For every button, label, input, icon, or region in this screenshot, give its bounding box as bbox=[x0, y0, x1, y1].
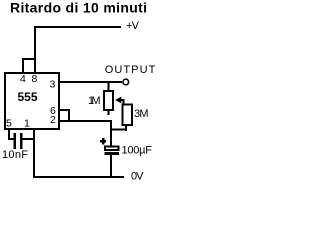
svg-text:0V: 0V bbox=[131, 171, 144, 183]
svg-text:4: 4 bbox=[20, 73, 26, 85]
wire: node vertical down to capacitor C2 bbox=[110, 120, 112, 146]
wire: pin 1 vertical down to 0V rail bbox=[33, 130, 35, 178]
wire: pin 4 vertical bbox=[22, 58, 24, 74]
svg-text:8: 8 bbox=[32, 73, 38, 85]
capacitor C2 bottom plate bbox=[105, 152, 120, 155]
output terminal circle bbox=[123, 79, 129, 85]
wire: R2 bottom lead down bbox=[125, 126, 127, 131]
op IC U1 555 box bbox=[5, 73, 59, 129]
wire: pin4-pin8 staple horizontal bbox=[22, 58, 36, 60]
wire: pin 3 output horizontal bbox=[60, 81, 122, 83]
potentiometer bottom stub bbox=[108, 111, 110, 115]
wire: pin 2 horizontal bbox=[60, 120, 112, 122]
capacitor C1 right plate bbox=[20, 133, 23, 149]
svg-text:1M: 1M bbox=[88, 95, 101, 107]
svg-text:2: 2 bbox=[50, 114, 56, 126]
svg-text:5: 5 bbox=[6, 118, 12, 130]
capacitor C2 plus sign bbox=[100, 138, 106, 144]
capacitor C2 top plate bbox=[105, 147, 119, 151]
wire: C1 right lead to pin1 line bbox=[23, 138, 34, 140]
wire: supply vertical to pin 8 bbox=[34, 26, 36, 74]
wire: pin 5 vertical bbox=[8, 130, 10, 140]
wire: R2 bottom lead left to node bbox=[111, 129, 127, 131]
wire: branch down to potentiometer bbox=[108, 83, 110, 91]
svg-text:+V: +V bbox=[126, 20, 140, 32]
wiper arrow of R1 bbox=[115, 97, 124, 104]
svg-text:3M: 3M bbox=[134, 108, 149, 120]
svg-text:100µF: 100µF bbox=[122, 145, 153, 157]
resistor R2 3M box bbox=[123, 105, 133, 126]
svg-text:10nF: 10nF bbox=[2, 149, 28, 161]
wire: pin6-pin2 bracket vertical bbox=[68, 109, 70, 122]
svg-text:3: 3 bbox=[50, 79, 56, 91]
wire: pin 6 horizontal bbox=[60, 109, 70, 111]
wire: wiper to R2 top bbox=[123, 100, 125, 104]
wire: C2 bottom lead bbox=[110, 155, 112, 176]
svg-text:555: 555 bbox=[18, 90, 38, 104]
capacitor C1 left plate bbox=[14, 133, 17, 149]
svg-text:Ritardo di 10 minuti: Ritardo di 10 minuti bbox=[10, 0, 147, 16]
potentiometer R1 1M box bbox=[104, 91, 113, 110]
wire: pin 5 lead to C1 bbox=[8, 138, 14, 140]
0V rail wire bbox=[33, 176, 124, 178]
svg-text:1: 1 bbox=[24, 118, 30, 130]
+V rail wire bbox=[34, 26, 121, 28]
